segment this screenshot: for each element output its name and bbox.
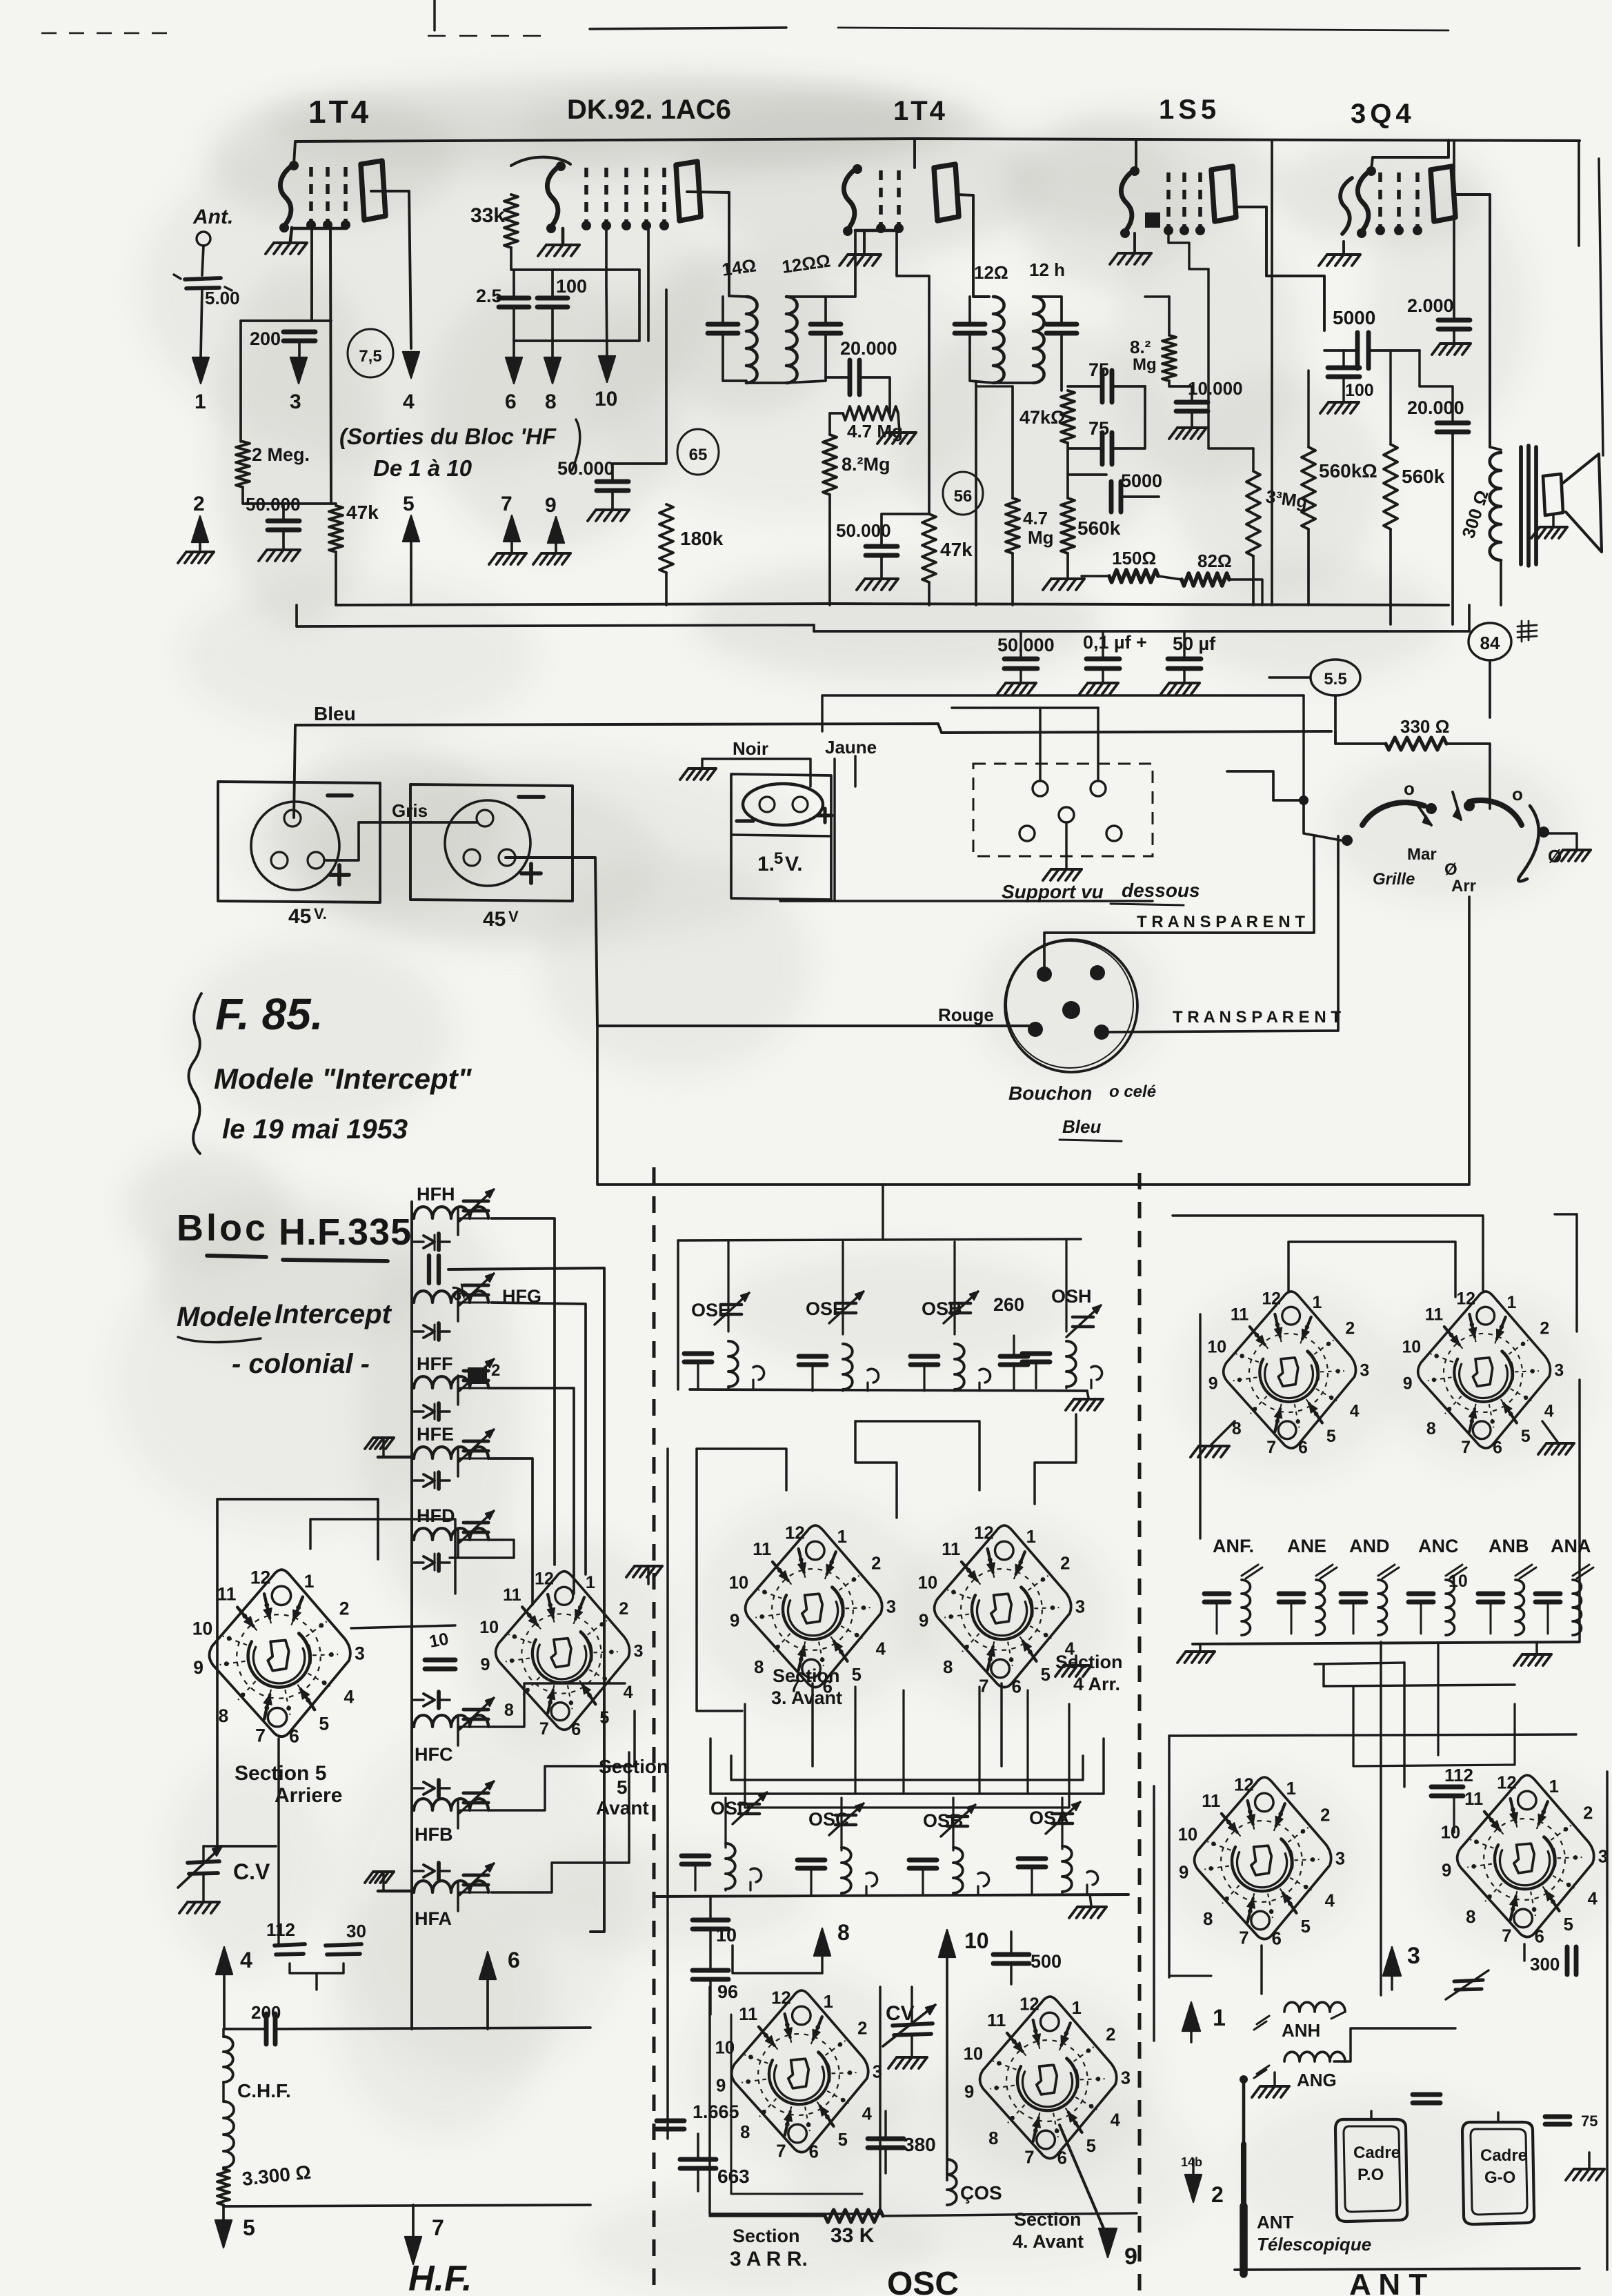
- battery B1 pin top: [284, 810, 301, 827]
- wire 47k-560k: [1066, 443, 1069, 498]
- socket support dashed box: [973, 764, 1153, 856]
- wire ANA cell base: [1547, 1602, 1549, 1634]
- output transformer primary: [1490, 453, 1501, 560]
- wire 75 net: [1068, 385, 1102, 388]
- svg-text:9: 9: [1179, 1863, 1188, 1882]
- wire c1: [1019, 631, 1022, 659]
- svg-text:82Ω: 82Ω: [1197, 551, 1232, 571]
- wire right edge: [1578, 141, 1580, 246]
- coil ANB cell: [1515, 1580, 1524, 1635]
- wire 150-82: [1082, 575, 1109, 577]
- ground pin2: [186, 551, 214, 553]
- wire ANE cell base: [1291, 1602, 1293, 1634]
- battery B1 minus: [328, 793, 352, 798]
- trimmer HFH: [464, 1199, 488, 1203]
- wire V1 cathode to ground: [290, 228, 292, 241]
- pigtail OSG bank: [979, 1369, 991, 1383]
- wire return bus: [780, 900, 1153, 902]
- wire V1 plate lead: [371, 191, 411, 348]
- resistor 560k left: [1302, 447, 1315, 529]
- svg-text:1: 1: [1026, 1527, 1036, 1547]
- wire (top-left dashes): [41, 32, 179, 34]
- wire HF mid rail: [434, 1235, 436, 1250]
- wire below 2Meg: [243, 487, 336, 504]
- wire det gnd: [880, 555, 883, 577]
- wire 33k top hook: [511, 157, 570, 166]
- capacitor 75 b: [1100, 433, 1105, 464]
- svg-text:HFA: HFA: [415, 1908, 452, 1929]
- IF transformer T1 coil a: [746, 297, 757, 383]
- wire V3 plate lead: [956, 195, 989, 297]
- resistor 47k diode: [1061, 390, 1075, 443]
- svg-text:10.000: 10.000: [1188, 378, 1243, 399]
- svg-text:8: 8: [837, 1920, 850, 1945]
- svg-text:H.F.: H.F.: [408, 2259, 472, 2296]
- capacitor 10 osc: [693, 1918, 728, 1923]
- capacitor 20.000: [848, 360, 853, 395]
- wire T1 bottom: [746, 382, 786, 384]
- svg-text:F. 85.: F. 85.: [215, 989, 324, 1039]
- svg-text:Section: Section: [1014, 2209, 1082, 2230]
- svg-text:50.000: 50.000: [557, 458, 615, 479]
- wire 50.000 osc feed: [613, 290, 666, 480]
- wire V2 cathode gnd: [561, 228, 565, 243]
- resistor 47k det: [922, 514, 936, 582]
- wire maze 2: [855, 1421, 897, 1518]
- sercap HFF: [424, 1405, 435, 1418]
- circled 65: [677, 429, 719, 475]
- capacitor 50.000 bypass: [1004, 657, 1037, 662]
- capacitor 10: [425, 1658, 455, 1663]
- svg-text:47kΩ: 47kΩ: [1019, 407, 1066, 428]
- bouchon circle: [1005, 940, 1137, 1072]
- wire HFB stubs: [412, 1810, 414, 1812]
- wire T2 bottom: [993, 382, 1033, 384]
- svg-text:1: 1: [1549, 1777, 1559, 1797]
- resistor 33k: [504, 195, 518, 248]
- wire c2: [1102, 631, 1104, 659]
- coil OSH bank: [1066, 1341, 1076, 1387]
- wire bus drop to V3: [913, 139, 916, 168]
- svg-text:7: 7: [1266, 1438, 1276, 1457]
- coil OSG bank: [955, 1344, 964, 1389]
- wire maze 6: [811, 1683, 813, 1766]
- wire maze 8: [745, 1704, 1069, 1808]
- pin 2 arrow: [192, 516, 208, 542]
- svg-text:56: 56: [954, 487, 973, 506]
- wire ant maze c: [1169, 1975, 1211, 1977]
- wire 47k det down: [928, 582, 931, 605]
- wire transparent 2: [1102, 836, 1338, 1032]
- trimmer ant mid: [1454, 1980, 1483, 1981]
- sercap mid: [424, 1694, 435, 1706]
- svg-text:2: 2: [1060, 1554, 1070, 1574]
- svg-text:10: 10: [1449, 1572, 1468, 1591]
- svg-text:HFC: HFC: [415, 1744, 453, 1765]
- svg-text:1: 1: [1506, 1294, 1516, 1312]
- svg-text:9: 9: [964, 2082, 974, 2101]
- svg-text:5: 5: [243, 2215, 255, 2240]
- svg-text:V: V: [508, 908, 519, 925]
- wire pin8: [733, 1946, 822, 1973]
- coil OSF bank: [843, 1344, 853, 1389]
- socket pin a: [1033, 781, 1048, 796]
- pin 1 arrow: [192, 357, 209, 384]
- svg-text:5000: 5000: [1333, 307, 1375, 328]
- svg-text:5000: 5000: [1121, 471, 1162, 491]
- rotary wafer S3 AVANT: [729, 1523, 896, 1696]
- wire 20.000: [826, 376, 850, 379]
- svg-text:12: 12: [785, 1523, 805, 1543]
- svg-text:12: 12: [1456, 1290, 1475, 1309]
- bouchon pin c: [1062, 1001, 1080, 1019]
- switch contact dots: [1342, 835, 1353, 846]
- cadre GO: [1462, 2122, 1534, 2224]
- wire V4 cathode gnd: [1133, 233, 1136, 251]
- antenna telescopic: [1240, 2075, 1248, 2084]
- pigtail OSH bank: [1091, 1366, 1102, 1380]
- wire maze 4: [710, 1739, 1104, 1794]
- svg-text:2: 2: [1540, 1319, 1549, 1338]
- svg-text:663: 663: [717, 2166, 750, 2187]
- wire 150 left: [1067, 566, 1068, 576]
- ground 100 grid: [1329, 401, 1359, 404]
- wire bus drop to V1: [294, 141, 295, 164]
- wire ant risers: [1199, 1314, 1201, 1538]
- coil ANE cell: [1316, 1580, 1325, 1635]
- svg-text:112: 112: [1444, 1765, 1473, 1785]
- wire cap to gnd: [282, 530, 285, 548]
- svg-text:3: 3: [1121, 2069, 1131, 2088]
- wire long bottom: [597, 897, 1469, 1185]
- wire HFG stubs: [412, 1302, 414, 1304]
- svg-text:Arriere: Arriere: [275, 1784, 342, 1807]
- capacitor 100 grid: [1328, 366, 1360, 370]
- svg-text:10: 10: [595, 388, 617, 410]
- wire loop hfc: [490, 1683, 625, 1727]
- wire B+ rail: [1271, 140, 1273, 605]
- wire gris: [324, 822, 477, 860]
- svg-text:2: 2: [491, 1361, 500, 1380]
- wire 663: [697, 2134, 699, 2159]
- svg-text:12: 12: [974, 1523, 994, 1543]
- pin 4 arrow: [403, 352, 419, 378]
- wire ant drop: [201, 289, 202, 357]
- wire HFF stubs: [412, 1387, 414, 1389]
- pin 1 arrow ant: [1182, 2002, 1200, 2031]
- capacitor T2 secondary: [1046, 322, 1077, 327]
- svg-text:10: 10: [192, 1619, 212, 1639]
- wire 84 drop: [1489, 660, 1491, 717]
- IF transformer T2 coil a: [993, 297, 1004, 383]
- rotary wafer ANT A: [1207, 1290, 1369, 1458]
- ground 4.7Meg: [886, 431, 916, 434]
- svg-text:2: 2: [871, 1554, 881, 1574]
- svg-text:DK.92. 1AC6: DK.92. 1AC6: [567, 95, 731, 125]
- svg-text:C.H.F.: C.H.F.: [237, 2080, 291, 2101]
- capacitor T1 primary: [708, 322, 738, 327]
- ground noir: [688, 767, 716, 770]
- svg-text:12Ω: 12Ω: [974, 262, 1008, 283]
- wire bus drop to V4: [1135, 139, 1137, 170]
- wire V3 grid chain: [897, 232, 929, 514]
- svg-text:9: 9: [1442, 1861, 1451, 1880]
- svg-text:47k: 47k: [940, 539, 973, 560]
- svg-text:7: 7: [1239, 1929, 1248, 1948]
- socket pin e: [1106, 826, 1122, 841]
- tube V1 1T4: [280, 164, 294, 228]
- battery B2 pin right: [499, 849, 515, 866]
- svg-text:4: 4: [403, 390, 415, 413]
- svg-text:OSB: OSB: [922, 1298, 962, 1319]
- svg-text:4: 4: [1588, 1890, 1598, 1909]
- wire 330 right: [1446, 744, 1490, 809]
- svg-text:3: 3: [886, 1598, 896, 1617]
- svg-text:3Q4: 3Q4: [1351, 99, 1415, 129]
- svg-text:7: 7: [255, 1725, 266, 1745]
- socket pin c: [1059, 807, 1074, 822]
- svg-text:7,5: 7,5: [359, 347, 381, 366]
- svg-text:2.000: 2.000: [1407, 295, 1454, 316]
- wire loop hfg: [491, 1303, 586, 1574]
- coil ANG: [1284, 2052, 1345, 2061]
- ground speaker: [1552, 516, 1554, 526]
- coil COS: [947, 2159, 957, 2205]
- svg-text:2: 2: [1106, 2026, 1115, 2045]
- svg-text:V.: V.: [314, 905, 327, 922]
- battery LT plus: [818, 813, 832, 817]
- svg-text:84: 84: [1480, 633, 1500, 653]
- hatch ANE cell: [1316, 1565, 1333, 1576]
- capacitor 2.000: [1438, 318, 1470, 323]
- wire 4.7Mg avc: [1011, 386, 1014, 498]
- svg-text:ANF.: ANF.: [1213, 1536, 1254, 1556]
- svg-text:5: 5: [1086, 2137, 1096, 2156]
- wire loop hff: [490, 1388, 574, 1594]
- wire to gnd: [611, 491, 614, 508]
- capacitor OSG bank: [911, 1354, 938, 1359]
- capacitor 50.000 det: [866, 544, 897, 549]
- sercap HFH: [424, 1236, 435, 1248]
- wire HF rail left: [410, 1202, 413, 2029]
- svg-text:65: 65: [689, 446, 708, 464]
- wire 8.2Meg: [828, 413, 831, 435]
- wire ant left col: [1153, 1786, 1155, 2041]
- ground under V1: [274, 241, 307, 244]
- sercap HFG: [424, 1325, 435, 1338]
- capacitor ANB cell: [1478, 1592, 1503, 1596]
- battery B1 box: [218, 782, 380, 902]
- wire chf col: [223, 2020, 224, 2029]
- svg-text:4: 4: [862, 2105, 873, 2124]
- capacitor OSE bank: [684, 1352, 712, 1356]
- circled 5.5: [1311, 660, 1360, 695]
- wire maze 1: [697, 1449, 742, 1711]
- wire HF rail right upper: [457, 1207, 459, 1235]
- wire V1 cathode: [292, 228, 346, 228]
- svg-text:dessous: dessous: [1122, 880, 1200, 901]
- resistor 560k right: [1384, 444, 1397, 529]
- battery LT pin a: [759, 797, 775, 812]
- svg-text:10: 10: [964, 1928, 989, 1953]
- svg-text:20.000: 20.000: [1407, 397, 1464, 418]
- switch wiper arc a: [1362, 802, 1424, 825]
- svg-text:2: 2: [1211, 2182, 1224, 2207]
- IF transformer T2 coil b: [1033, 297, 1044, 383]
- svg-text:2: 2: [857, 2019, 867, 2039]
- pin 2 arrow ant: [1192, 2159, 1194, 2173]
- box s3arr: [710, 1987, 880, 2214]
- svg-text:4: 4: [1544, 1402, 1554, 1421]
- coil HFB: [414, 1799, 488, 1810]
- svg-text:5.00: 5.00: [205, 288, 240, 308]
- svg-text:11: 11: [1464, 1790, 1483, 1809]
- wire caps junction: [514, 270, 639, 341]
- wire hf out bus: [224, 2028, 266, 2030]
- capacitor 200: [283, 330, 315, 335]
- svg-text:11: 11: [1425, 1306, 1443, 1325]
- resistor 180k: [659, 504, 673, 573]
- svg-text:Télescopique: Télescopique: [1257, 2234, 1371, 2255]
- ground 2.000: [1440, 342, 1471, 345]
- circled 56: [943, 472, 983, 515]
- tube V4 1S5: [1121, 170, 1135, 233]
- svg-text:9: 9: [1124, 2244, 1137, 2270]
- svg-text:12: 12: [535, 1570, 554, 1589]
- svg-text:4: 4: [876, 1640, 886, 1659]
- wire 560kl: [1307, 370, 1309, 447]
- circled 84: [1469, 623, 1511, 660]
- wire avc node: [1068, 473, 1106, 476]
- wire OSA bank base: [1031, 1868, 1033, 1893]
- svg-text:HFF: HFF: [417, 1354, 452, 1374]
- svg-text:5: 5: [852, 1665, 862, 1685]
- svg-text:4.7 Mg: 4.7 Mg: [847, 421, 903, 442]
- svg-text:3: 3: [1335, 1850, 1345, 1869]
- svg-text:Mg: Mg: [1133, 355, 1157, 374]
- wire loop hfd: [450, 1540, 514, 1558]
- svg-text:ANE: ANE: [1287, 1536, 1326, 1556]
- capacitor OSD bank: [681, 1854, 709, 1859]
- svg-text:8: 8: [1426, 1420, 1436, 1438]
- svg-text:OSC: OSC: [887, 2266, 959, 2296]
- resistor 560k: [1061, 498, 1075, 553]
- svg-text:14b: 14b: [1181, 2155, 1202, 2169]
- capacitor 5000 avc: [1109, 482, 1114, 512]
- wire ant bus: [1193, 1642, 1579, 1644]
- pin 3 arrow: [290, 357, 307, 384]
- svg-text:75: 75: [1581, 2112, 1598, 2130]
- resistor 4.7Meg: [843, 406, 898, 420]
- svg-text:5: 5: [1521, 1427, 1531, 1446]
- svg-text:AND: AND: [1349, 1536, 1390, 1556]
- svg-text:45: 45: [288, 905, 311, 928]
- svg-text:6: 6: [505, 390, 517, 413]
- svg-text:75: 75: [1088, 418, 1109, 439]
- rotary wafer S5 AVANT: [479, 1570, 643, 1739]
- wire battery riser: [882, 1185, 884, 1239]
- wire bleu to switch: [1334, 731, 1337, 744]
- ground c1: [1006, 682, 1036, 684]
- wire left col to busA: [242, 564, 243, 605]
- capacitor 300 ant: [1565, 1947, 1570, 1975]
- svg-text:560kΩ: 560kΩ: [1319, 460, 1377, 482]
- battery B1 pin right: [308, 852, 324, 869]
- svg-text:Section: Section: [773, 1665, 840, 1686]
- svg-text:- colonial -: - colonial -: [232, 1349, 370, 1379]
- battery B2 pin top: [477, 810, 493, 827]
- ground 50.000: [267, 548, 300, 551]
- wire switch left feed: [1273, 800, 1341, 840]
- svg-text:5: 5: [838, 2130, 848, 2150]
- svg-text:5: 5: [1326, 1427, 1336, 1446]
- pin 4 arrow hf: [216, 1947, 232, 1975]
- wire bottom bus A: [336, 604, 1449, 605]
- ground ant bus L: [1199, 1644, 1201, 1650]
- wire HFC stubs: [412, 1726, 414, 1728]
- ground ANG: [1273, 2072, 1275, 2085]
- ground under V2: [546, 244, 579, 246]
- svg-text:Modele "Intercept": Modele "Intercept": [214, 1062, 472, 1095]
- svg-text:Cadre: Cadre: [1480, 2146, 1527, 2165]
- cadre PO: [1335, 2119, 1407, 2221]
- bouchon pin 1: [1037, 967, 1052, 982]
- wire ANF. cell base: [1216, 1602, 1218, 1634]
- wire bus B drop: [295, 605, 298, 626]
- wire switch left feed2: [1227, 771, 1273, 800]
- resistor 4.7Mg avc: [1006, 498, 1019, 553]
- rotary wafer ANT B: [1402, 1290, 1564, 1458]
- wire c3: [1183, 631, 1185, 659]
- wire 20.000 out: [1418, 350, 1420, 386]
- wire cv osc: [911, 1987, 913, 2023]
- hatch ANB cell: [1515, 1565, 1532, 1576]
- svg-text:o: o: [1512, 784, 1523, 804]
- wire 180k down: [665, 573, 668, 605]
- svg-text:7: 7: [501, 493, 513, 515]
- capacitor 663: [680, 2157, 716, 2162]
- wire 560kl top: [1308, 370, 1344, 371]
- rotary wafer ANT D: [1441, 1773, 1608, 1946]
- svg-text:ANH: ANH: [1282, 2020, 1320, 2041]
- wire caps chain: [709, 1897, 711, 1920]
- wire rouge: [506, 858, 1035, 1026]
- svg-text:1: 1: [824, 1992, 833, 2012]
- ground osc upper: [1087, 1391, 1088, 1398]
- pigtail OSA bank: [1087, 1871, 1098, 1885]
- pin 9 arrow osc: [1059, 2125, 1104, 2228]
- wire 4.7Meg right to gnd: [898, 413, 899, 431]
- wire antA top: [1288, 1242, 1455, 1297]
- battery LT minus: [737, 819, 753, 822]
- capacitor 5000 coupling: [1355, 333, 1360, 368]
- wire antc top: [1169, 1734, 1576, 1736]
- svg-text:Ø: Ø: [1444, 860, 1457, 879]
- pigtail OSF bank: [868, 1369, 879, 1383]
- svg-text:1: 1: [586, 1573, 595, 1592]
- svg-text:3: 3: [1407, 1943, 1420, 1969]
- wire osc lower bus: [657, 1894, 1128, 1897]
- svg-text:7: 7: [539, 1719, 549, 1739]
- wire V5 plate: [1454, 195, 1490, 447]
- wire maze 5: [731, 1756, 1083, 1780]
- svg-text:50 µf: 50 µf: [1173, 633, 1216, 654]
- capacitor 100: [537, 296, 568, 301]
- capacitor 75 a: [1100, 370, 1105, 402]
- svg-text:5: 5: [319, 1713, 329, 1734]
- coil ANH: [1284, 2002, 1345, 2012]
- svg-text:10: 10: [918, 1574, 938, 1593]
